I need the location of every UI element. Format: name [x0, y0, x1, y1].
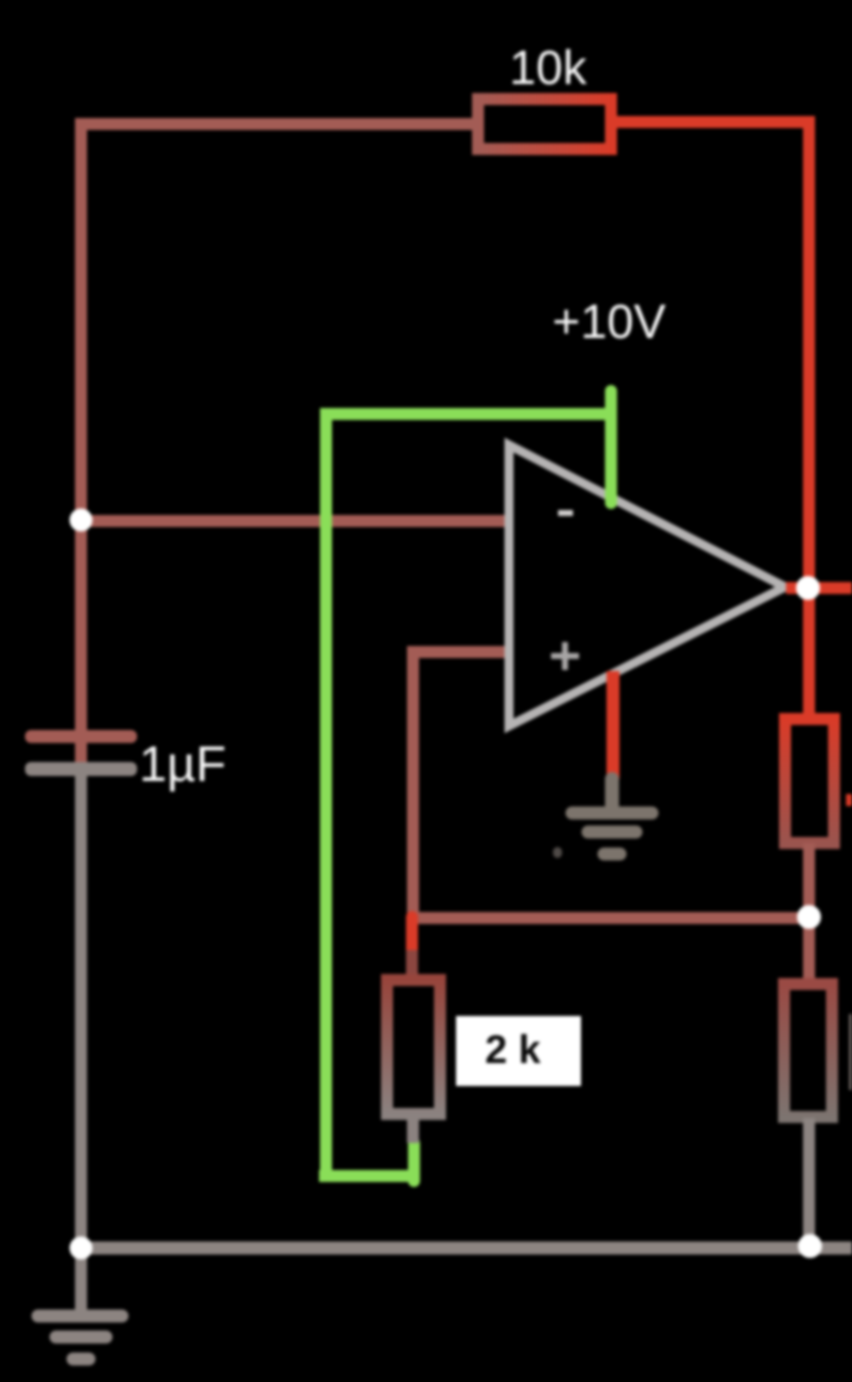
- svg-text:1µF: 1µF: [139, 736, 226, 792]
- wire R2 bottom lead: [803, 843, 815, 918]
- gray edge artifact: [849, 1014, 852, 1090]
- op-amp plus label: [551, 642, 579, 670]
- svg-text:2 k: 2 k: [485, 1028, 541, 1072]
- feedback node junction dot: [797, 905, 821, 929]
- wire green supply horizontal: [320, 408, 612, 420]
- ground G1 (op-amp supply): [572, 779, 652, 854]
- label box 2 k: [456, 1016, 581, 1086]
- wire inverting input: [81, 515, 507, 527]
- capacitor C1 bottom plate: [25, 762, 137, 776]
- ground G2 (bottom left): [38, 1248, 122, 1359]
- output node junction dot: [796, 576, 820, 600]
- wire negative supply red: [607, 671, 620, 779]
- op-amp U1: [509, 445, 785, 726]
- wire R3 bottom lead: [407, 1120, 419, 1143]
- wire R1 to top-right corner down to R2: [617, 122, 809, 719]
- resistor R1 10k: [478, 99, 611, 149]
- svg-text:+10V: +10V: [552, 296, 665, 349]
- node A junction dot: [70, 509, 93, 532]
- wire feedback node horizontal: [413, 912, 809, 924]
- wire R4 bottom lead: [803, 1118, 815, 1248]
- wire green left vertical: [320, 408, 332, 1174]
- resistor R3 2k: [387, 980, 440, 1114]
- op-amp minus label: [558, 510, 573, 516]
- wire bottom rail: [81, 1242, 852, 1255]
- svg-text:10k: 10k: [509, 42, 587, 95]
- capacitor C1 top plate: [25, 730, 137, 743]
- wire green bottom horizontal: [319, 1170, 415, 1182]
- smudge mark: [553, 847, 562, 858]
- wire left vertical (node A down to capacitor): [75, 118, 87, 762]
- ground node right junction dot: [798, 1234, 822, 1258]
- red edge artifact: [846, 794, 852, 806]
- wire output stub right: [786, 582, 852, 594]
- wire top horizontal (left node to R1): [76, 118, 472, 130]
- wire green bottom up-stub: [408, 1143, 420, 1181]
- wire non-inverting input: [413, 652, 507, 920]
- wire red stub on R3 top lead: [406, 917, 418, 957]
- wire R4 top lead: [803, 918, 815, 986]
- ground node left junction dot: [70, 1237, 93, 1260]
- wire capacitor bottom vertical: [75, 770, 87, 1248]
- resistor R2 (upper right): [785, 719, 834, 843]
- resistor R4 (lower right): [784, 984, 832, 1117]
- wire R3 top lead: [406, 950, 418, 978]
- wire green +10V power pin: [605, 391, 617, 503]
